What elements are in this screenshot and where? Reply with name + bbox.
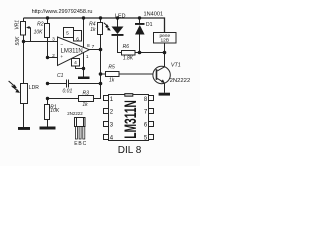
svg-text:0.01: 0.01 bbox=[63, 88, 73, 94]
svg-text:1k: 1k bbox=[109, 78, 115, 84]
svg-text:LED: LED bbox=[115, 13, 126, 19]
svg-text:C1: C1 bbox=[57, 73, 64, 79]
svg-text:R6: R6 bbox=[123, 44, 130, 50]
svg-text:LM311N: LM311N bbox=[61, 48, 83, 54]
svg-text:1.8K: 1.8K bbox=[123, 55, 134, 61]
svg-text:8: 8 bbox=[87, 43, 90, 49]
svg-text:R5: R5 bbox=[108, 64, 115, 70]
svg-text:7: 7 bbox=[92, 44, 95, 50]
svg-text:R3: R3 bbox=[82, 90, 89, 96]
svg-text:10K: 10K bbox=[50, 108, 60, 114]
svg-text:VT1: VT1 bbox=[171, 62, 181, 68]
svg-text:10K: 10K bbox=[34, 29, 44, 35]
svg-text:LM311N: LM311N bbox=[121, 100, 140, 139]
svg-text:http://www.299792458.ru: http://www.299792458.ru bbox=[32, 9, 93, 15]
svg-text:4: 4 bbox=[74, 60, 77, 66]
svg-text:2N2222: 2N2222 bbox=[67, 111, 83, 116]
svg-text:LDR: LDR bbox=[29, 85, 39, 91]
svg-text:50K: 50K bbox=[15, 36, 21, 46]
svg-text:1N4001: 1N4001 bbox=[143, 11, 163, 17]
svg-text:+: + bbox=[60, 55, 63, 60]
svg-text:12В: 12В bbox=[161, 38, 170, 44]
svg-text:3: 3 bbox=[52, 37, 55, 43]
svg-text:DIL 8: DIL 8 bbox=[118, 145, 142, 156]
svg-text:6: 6 bbox=[76, 36, 79, 42]
svg-text:D1: D1 bbox=[146, 22, 153, 28]
svg-text:2N2222: 2N2222 bbox=[170, 78, 191, 84]
svg-text:1k: 1k bbox=[82, 102, 88, 108]
svg-text:5: 5 bbox=[66, 30, 69, 36]
svg-text:2: 2 bbox=[52, 53, 55, 59]
svg-text:1: 1 bbox=[86, 54, 89, 60]
svg-text:C: C bbox=[83, 141, 87, 147]
svg-text:1k: 1k bbox=[90, 27, 96, 33]
svg-text:VR1: VR1 bbox=[14, 20, 20, 30]
svg-text:R2: R2 bbox=[37, 21, 44, 27]
